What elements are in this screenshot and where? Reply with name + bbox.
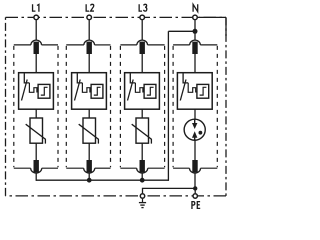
wire disconnector to spark gap (module L2) <box>88 54 90 73</box>
wire L2 terminal to module <box>88 20 90 40</box>
terminal N <box>193 15 198 20</box>
wire L3 terminal to module <box>141 20 143 40</box>
terminal L3 <box>140 15 145 20</box>
terminal label L1 <box>33 4 39 11</box>
junction node PE <box>193 186 197 190</box>
spark gap switch contact (module L2) <box>77 73 82 83</box>
spark gap switch blade (module L3) <box>128 80 134 101</box>
wire varistor to disconnector (module L1) <box>35 143 37 160</box>
spark gap U1 box (module L1) <box>19 73 54 110</box>
plug contact bottom (module L3) <box>137 168 148 173</box>
wire varistor to disconnector (module L3) <box>141 143 143 160</box>
wire disconnector to spark gap (module L3) <box>141 54 143 73</box>
wire bottom bus (N bus) <box>36 179 168 181</box>
thermal disconnector top (module L2) <box>87 42 92 54</box>
wire module L1 to bus <box>35 173 37 181</box>
wire spark gap to varistor (module L3) <box>141 109 143 118</box>
terminal label L3 <box>139 4 147 11</box>
module boundary (plug-in module L3) <box>120 45 164 168</box>
thermal disconnector bottom (module L2) <box>87 160 92 172</box>
terminal label PE <box>192 202 200 209</box>
trigger unit box (module L1) <box>38 84 50 98</box>
plug contact top (module L1) <box>31 40 42 45</box>
spark gap switch contact (module N) <box>183 73 188 83</box>
spark gap switch blade (module N) <box>180 80 186 101</box>
plug contact top (module L3) <box>137 40 148 45</box>
earth terminal <box>140 194 144 198</box>
plug contact bottom (module N) <box>190 168 201 173</box>
trigger impulse symbol (module L3) <box>147 87 154 95</box>
module boundary (plug-in module L2) <box>66 45 110 168</box>
trigger connection wave (module L3) <box>135 83 144 92</box>
trigger connection wave (module N) <box>188 83 197 92</box>
wire spark gap to varistor (module L2) <box>88 109 90 118</box>
wire spark gap to varistor (module L1) <box>35 109 37 118</box>
wire L1 terminal to module <box>35 20 37 40</box>
thermal disconnector bottom (module L1) <box>34 160 39 172</box>
thermal disconnector top (module N) <box>192 42 197 54</box>
terminal PE <box>193 194 197 198</box>
trigger connection wave (module L2) <box>82 83 91 92</box>
wire N-PE spark gap to disconnector <box>194 140 196 160</box>
wire module N to PE node <box>194 173 196 188</box>
module boundary (plug-in module L1) <box>14 45 58 168</box>
trigger connection wave (module L1) <box>29 83 38 92</box>
wire disconnector to spark gap (module L1) <box>35 54 37 73</box>
wire PE node to earth terminal <box>143 188 196 193</box>
spark gap switch contact (module L3) <box>130 73 135 83</box>
junction node bus/L3 <box>140 178 145 183</box>
spark gap switch blade (module L1) <box>22 80 28 101</box>
thermal disconnector top (module L3) <box>140 42 145 54</box>
thermal disconnector bottom (module L3) <box>140 160 145 172</box>
wire spark gap to N-PE spark gap <box>194 109 196 119</box>
trigger unit box (module L2) <box>91 84 103 98</box>
spark gap switch contact (module L1) <box>24 73 29 83</box>
terminal L1 <box>34 15 39 20</box>
thermal disconnector bottom (module N) <box>192 160 197 172</box>
junction node N <box>193 29 198 34</box>
plug contact top (module L2) <box>84 40 95 45</box>
trigger impulse symbol (module L2) <box>94 87 101 95</box>
trigger impulse symbol (module N) <box>200 87 207 95</box>
spark gap U3 box (module L3) <box>125 73 160 110</box>
N-PE spark gap F1 (gas discharge tube) <box>184 119 205 140</box>
wire N terminal to module <box>194 20 196 40</box>
plug contact top (module N) <box>190 40 201 45</box>
wire N node branch <box>168 30 195 32</box>
spark gap switch blade (module L2) <box>75 80 81 101</box>
trigger impulse symbol (module L1) <box>41 87 48 95</box>
varistor RV3 (module L3) <box>132 118 152 144</box>
ground symbol <box>139 199 146 208</box>
varistor RV2 (module L2) <box>79 118 99 144</box>
trigger unit box (module N) <box>197 84 209 98</box>
thermal disconnector top (module L1) <box>34 42 39 54</box>
plug contact bottom (module L2) <box>84 168 95 173</box>
enclosure dash-dot border <box>6 17 227 196</box>
plug contact bottom (module L1) <box>31 168 42 173</box>
trigger unit box (module L3) <box>144 84 156 98</box>
wire disconnector to spark gap (module N) <box>194 54 196 73</box>
spark gap U2 box (module L2) <box>72 73 107 110</box>
terminal L2 <box>87 15 92 20</box>
wire riser N-bus to N node <box>167 31 169 181</box>
wire module L3 to bus <box>141 173 143 180</box>
spark gap U4 box (module N) <box>177 73 212 110</box>
wire varistor to disconnector (module L2) <box>88 143 90 160</box>
module boundary (plug-in module N) <box>173 45 217 168</box>
terminal label N <box>193 4 198 11</box>
junction node bus/L2 <box>87 178 92 183</box>
varistor RV1 (module L1) <box>26 118 46 144</box>
terminal label L2 <box>86 4 94 11</box>
wire PE node to PE terminal <box>194 188 196 193</box>
wire module L2 to bus <box>88 173 90 180</box>
